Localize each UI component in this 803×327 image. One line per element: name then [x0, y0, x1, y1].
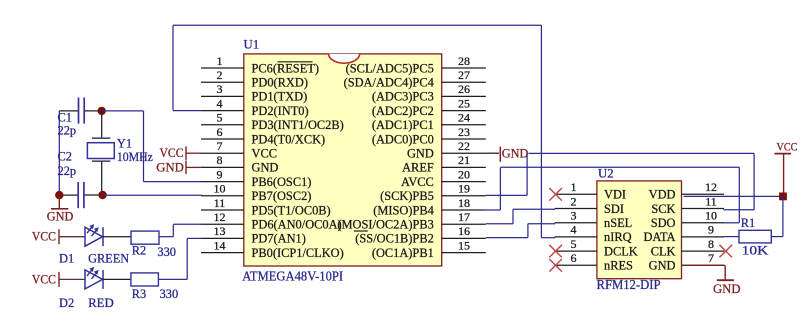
svg-text:16: 16	[458, 224, 470, 238]
node junction C2 left / GND	[55, 191, 63, 199]
overline SS on U1 pin 16 label	[354, 230, 368, 232]
svg-text:330: 330	[157, 245, 176, 259]
svg-text:D2: D2	[59, 296, 74, 310]
svg-text:7: 7	[217, 139, 223, 153]
svg-text:PD3(INT1/OC2B): PD3(INT1/OC2B)	[252, 118, 344, 132]
svg-text:GND: GND	[47, 210, 74, 224]
U2 pin 8 (CLK)	[651, 237, 724, 259]
ground symbol at crystal	[47, 195, 74, 223]
U1 pin 13 (PD7(AN1))	[201, 224, 306, 246]
svg-text:27: 27	[458, 68, 470, 82]
U1 pin 12 (PD6(AN0/OC0A))	[201, 210, 342, 232]
svg-text:12: 12	[214, 210, 226, 224]
svg-text:SDO: SDO	[651, 216, 676, 230]
U1 pin 28 ((SCL/ADC5)PC5)	[346, 54, 486, 76]
svg-text:C1: C1	[58, 111, 72, 125]
svg-text:DCLK: DCLK	[604, 244, 638, 258]
U1 pin 3 (PD1(TXD))	[201, 82, 307, 104]
svg-text:GND: GND	[252, 161, 279, 175]
svg-text:PB6(OSC1): PB6(OSC1)	[252, 175, 312, 189]
U1 pin 9 (PB6(OSC1))	[201, 167, 311, 189]
power label GND at U1 pin 8	[156, 160, 201, 174]
U1 pin 14 (PB0(ICP1/CLKO))	[201, 238, 344, 260]
svg-text:1: 1	[217, 54, 223, 68]
wire left rail	[58, 111, 60, 195]
svg-text:GND: GND	[156, 160, 184, 174]
svg-text:CLK: CLK	[651, 244, 676, 258]
U1 pin 25 ((ADC2)PC2)	[372, 96, 486, 118]
svg-text:GND: GND	[649, 259, 676, 273]
svg-text:PD1(TXD): PD1(TXD)	[252, 90, 308, 104]
svg-text:RED: RED	[88, 296, 114, 310]
svg-text:VCC: VCC	[160, 146, 184, 160]
node junction C1/Y1	[98, 107, 106, 115]
LED D2 (RED)	[85, 267, 131, 289]
label 10K (R1 value)	[742, 244, 769, 258]
overline RESET on U1 pin 1 label	[278, 61, 313, 63]
label R1	[741, 216, 755, 230]
U1 pin 15 ((OC1A)PB1)	[372, 238, 486, 260]
svg-text:PD2(INT0): PD2(INT0)	[252, 104, 309, 118]
svg-text:2: 2	[217, 68, 223, 82]
svg-text:28: 28	[458, 54, 470, 68]
svg-text:(SS/OC1B)PB2: (SS/OC1B)PB2	[355, 232, 434, 246]
U1 pin 24 ((ADC1)PC1)	[372, 111, 486, 133]
U1 pin 10 (PB7(OSC2))	[201, 182, 311, 204]
label Y1	[117, 137, 132, 151]
wire VCC to R1	[771, 196, 783, 236]
svg-text:19: 19	[458, 182, 470, 196]
U2 pin 5 (DCLK)	[555, 237, 638, 259]
node junction C2/Y1 bottom	[98, 191, 106, 199]
svg-text:25: 25	[458, 96, 470, 110]
svg-text:VCC: VCC	[252, 147, 277, 161]
U1 pin 11 (PD5(T1/OC0B))	[201, 196, 331, 218]
U2 pin 4 (nIRQ)	[555, 223, 632, 245]
svg-text:(ADC2)PC2: (ADC2)PC2	[372, 104, 434, 118]
svg-text:14: 14	[214, 238, 226, 252]
capacitor C1	[59, 98, 101, 124]
svg-text:nIRQ: nIRQ	[604, 230, 632, 244]
svg-text:(OC1A)PB1: (OC1A)PB1	[372, 246, 434, 260]
svg-text:4: 4	[571, 223, 577, 237]
U2 pin 10 (SDO)	[651, 209, 724, 231]
svg-text:SDI: SDI	[604, 202, 624, 216]
svg-text:PD5(T1/OC0B): PD5(T1/OC0B)	[252, 203, 331, 217]
svg-text:R1: R1	[741, 216, 755, 230]
crystal Y1	[87, 111, 114, 195]
U2 pin 2 (SDI)	[555, 194, 624, 216]
svg-text:(SCL/ADC5)PC5: (SCL/ADC5)PC5	[346, 61, 434, 75]
wire U1 pin 16 SS to RFM12 nSEL	[486, 224, 555, 238]
svg-text:(SCK)PB5: (SCK)PB5	[380, 189, 434, 203]
svg-text:6: 6	[571, 251, 577, 265]
label D2	[59, 296, 74, 310]
svg-text:Y1: Y1	[117, 137, 132, 151]
U1 pin 8 (GND)	[201, 153, 278, 175]
wire OSC1 top rail to U1 pin 9	[102, 111, 202, 182]
LED D1 (GREEN)	[85, 224, 131, 246]
svg-text:8: 8	[217, 153, 223, 167]
label GREEN	[88, 252, 129, 266]
svg-text:(SDA/ADC4)PC4: (SDA/ADC4)PC4	[344, 76, 434, 90]
svg-text:DATA: DATA	[643, 230, 675, 244]
no-connect X on U2 pin 1	[549, 188, 562, 201]
U1 pin 7 (VCC)	[201, 139, 277, 161]
wire R1 to RFM12 DATA pin 9	[724, 236, 740, 238]
svg-text:23: 23	[458, 125, 470, 139]
label C1	[58, 111, 72, 125]
svg-text:GND: GND	[407, 147, 434, 161]
wire R2 to U1 pin 12	[159, 224, 202, 236]
svg-text:PD6(AN0/OC0A): PD6(AN0/OC0A)	[252, 218, 342, 232]
node junction VCC/VDD	[779, 193, 787, 201]
svg-text:PB0(ICP1/CLKO): PB0(ICP1/CLKO)	[252, 246, 344, 260]
svg-text:5: 5	[217, 111, 223, 125]
svg-text:VCC: VCC	[777, 140, 798, 154]
wire R3 to U1 pin 13	[158, 238, 201, 279]
U1 pin 23 ((ADC0)PC0)	[372, 125, 486, 147]
svg-text:U1: U1	[244, 38, 260, 52]
svg-text:10K: 10K	[742, 244, 769, 258]
wire U1 pin 17 MOSI to RFM12 SDI	[486, 209, 555, 224]
svg-text:D1: D1	[59, 252, 74, 266]
U2 pin 11 (SCK)	[651, 194, 724, 216]
power label VCC at D1	[32, 229, 85, 244]
no-connect X on U2 pin 6	[549, 259, 562, 272]
svg-text:3: 3	[571, 209, 577, 223]
wire U1 pin 18 MISO to RFM12 SDO	[486, 167, 740, 223]
svg-text:330: 330	[160, 287, 179, 301]
svg-text:VDD: VDD	[649, 188, 676, 202]
svg-text:8: 8	[708, 237, 714, 251]
U1 pin 4 (PD2(INT0))	[201, 96, 309, 118]
svg-text:PC6(RESET): PC6(RESET)	[252, 61, 319, 75]
svg-text:AVCC: AVCC	[401, 175, 434, 189]
U2 pin 6 (nRES)	[555, 251, 633, 273]
svg-text:20: 20	[458, 167, 470, 181]
U2 designator	[598, 167, 614, 181]
label 10MHz (Y1 value)	[117, 150, 153, 164]
svg-text:26: 26	[458, 82, 470, 96]
no-connect X on U2 pin 8	[720, 245, 733, 258]
svg-text:18: 18	[458, 196, 470, 210]
U1 pin 6 (PD4(T0/XCK))	[201, 125, 325, 147]
svg-text:7: 7	[708, 251, 714, 265]
svg-text:U2: U2	[598, 167, 614, 181]
svg-text:VCC: VCC	[32, 272, 56, 286]
U1 pin 20 (AVCC)	[401, 167, 486, 189]
svg-text:12: 12	[705, 180, 717, 194]
svg-text:6: 6	[217, 125, 223, 139]
svg-text:AREF: AREF	[402, 161, 434, 175]
svg-text:nSEL: nSEL	[604, 216, 632, 230]
U2 part name RFM12-DIP	[597, 277, 661, 292]
svg-text:VDI: VDI	[604, 188, 626, 202]
label RED	[88, 296, 114, 310]
U1 pin 27 ((SDA/ADC4)PC4)	[344, 68, 486, 90]
label C2	[58, 150, 72, 164]
wire RFM12 VDD pin 12 to VCC	[684, 195, 783, 197]
svg-text:13: 13	[214, 224, 226, 238]
resistor R1	[739, 230, 771, 243]
svg-text:(ADC0)PC0: (ADC0)PC0	[372, 132, 434, 146]
U1 part name ATMEGA48V-10PI	[242, 270, 343, 285]
label 330 (R2 value)	[157, 245, 176, 259]
U1 pin 22 (GND)	[407, 139, 486, 161]
svg-text:C2: C2	[58, 150, 72, 164]
no-connect X on U2 pin 5	[549, 245, 562, 258]
U2 pin 12 (VDD)	[649, 180, 724, 202]
svg-text:nRES: nRES	[604, 259, 633, 273]
svg-text:21: 21	[458, 153, 470, 167]
svg-text:GND: GND	[502, 146, 529, 160]
svg-text:PD7(AN1): PD7(AN1)	[252, 232, 306, 246]
svg-text:(ADC3)PC3: (ADC3)PC3	[372, 90, 434, 104]
U1 pin 26 ((ADC3)PC3)	[372, 82, 486, 104]
U1 pin-1 notch	[329, 54, 360, 63]
svg-text:VCC: VCC	[32, 230, 56, 244]
U1 pin 2 (PD0(RXD))	[201, 68, 308, 90]
U1 pin 19 ((SCK)PB5)	[380, 182, 486, 204]
svg-text:9: 9	[708, 223, 714, 237]
svg-text:9: 9	[217, 167, 223, 181]
svg-text:R2: R2	[132, 244, 146, 258]
U2 pin 7 (GND)	[649, 251, 724, 273]
svg-text:2: 2	[571, 194, 577, 208]
IC U1 ATMEGA48V-10PI body	[244, 54, 442, 266]
power label VCC at D2	[32, 272, 85, 287]
svg-text:RFM12-DIP: RFM12-DIP	[597, 277, 661, 292]
resistor R3	[131, 273, 159, 286]
ground symbol at RFM12 pin 7	[684, 265, 741, 296]
power label VCC at U1 pin 7	[160, 146, 202, 160]
net label GND on pin 22 wire	[500, 146, 528, 161]
svg-text:R3: R3	[132, 287, 146, 301]
U1 designator	[244, 38, 260, 52]
wire U1 pin 19 SCK riser	[486, 153, 527, 195]
svg-text:10: 10	[705, 209, 717, 223]
U2 pin 1 (VDI)	[555, 180, 626, 202]
svg-text:ATMEGA48V-10PI: ATMEGA48V-10PI	[242, 270, 343, 285]
svg-text:24: 24	[458, 111, 470, 125]
svg-text:11: 11	[214, 196, 226, 210]
wire U1 pin 22 GND net	[486, 152, 499, 154]
svg-text:SCK: SCK	[651, 202, 675, 216]
svg-text:(MOSI/OC2A)PB3: (MOSI/OC2A)PB3	[337, 218, 433, 232]
svg-text:3: 3	[217, 82, 223, 96]
svg-text:22: 22	[458, 139, 470, 153]
svg-text:22p: 22p	[58, 164, 77, 178]
svg-text:PB7(OSC2): PB7(OSC2)	[252, 189, 312, 203]
svg-text:17: 17	[458, 210, 470, 224]
label 330 (R3 value)	[160, 287, 179, 301]
svg-text:(MISO)PB4: (MISO)PB4	[373, 203, 434, 217]
svg-text:1: 1	[571, 180, 577, 194]
label 22p (C2 value)	[58, 164, 77, 178]
U2 pin 9 (DATA)	[643, 223, 724, 245]
U2 pin 3 (nSEL)	[555, 209, 633, 231]
wire GND row to RFM12 SCK pin 11	[529, 153, 755, 209]
U1 pin 17 ((MOSI/OC2A)PB3)	[337, 210, 485, 232]
resistor R2	[131, 231, 159, 244]
svg-text:4: 4	[217, 96, 223, 110]
U1 pin 16 ((SS/OC1B)PB2)	[355, 224, 486, 246]
svg-text:10MHz: 10MHz	[117, 150, 153, 164]
svg-text:(ADC1)PC1: (ADC1)PC1	[372, 118, 434, 132]
svg-text:15: 15	[458, 238, 470, 252]
label R2	[132, 244, 146, 258]
wire PD2/INT0 to RFM12 nIRQ (top route)	[173, 25, 555, 237]
U1 pin 1 (PC6(RESET))	[201, 54, 319, 76]
IC U2 RFM12-DIP body	[597, 181, 682, 279]
svg-text:10: 10	[214, 182, 226, 196]
U1 pin 18 ((MISO)PB4)	[373, 196, 486, 218]
wire OSC2 bottom rail to U1 pin 10	[103, 194, 202, 196]
U1 pin 5 (PD3(INT1/OC2B))	[201, 111, 344, 133]
svg-text:PD4(T0/XCK): PD4(T0/XCK)	[252, 132, 326, 146]
svg-text:PD0(RXD): PD0(RXD)	[252, 76, 308, 90]
label D1	[59, 252, 74, 266]
power symbol VCC top right	[774, 140, 797, 197]
U1 pin 21 (AREF)	[402, 153, 486, 175]
label R3	[132, 287, 146, 301]
svg-text:GND: GND	[713, 282, 741, 296]
svg-text:GREEN: GREEN	[88, 252, 129, 266]
capacitor C2	[59, 182, 102, 208]
svg-text:22p: 22p	[58, 124, 77, 138]
svg-text:5: 5	[571, 237, 577, 251]
label 22p (C1 value)	[58, 124, 77, 138]
